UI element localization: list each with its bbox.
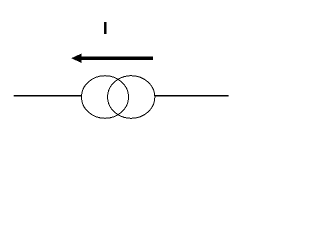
current source I1 (left circle) bbox=[82, 76, 129, 119]
wire (left segment) bbox=[14, 95, 82, 97]
wire (right segment) bbox=[155, 95, 229, 97]
arrow (current direction, pointing left) bbox=[71, 54, 153, 63]
svg-text:I: I bbox=[103, 18, 108, 38]
current source I1 (right circle) bbox=[108, 76, 155, 119]
